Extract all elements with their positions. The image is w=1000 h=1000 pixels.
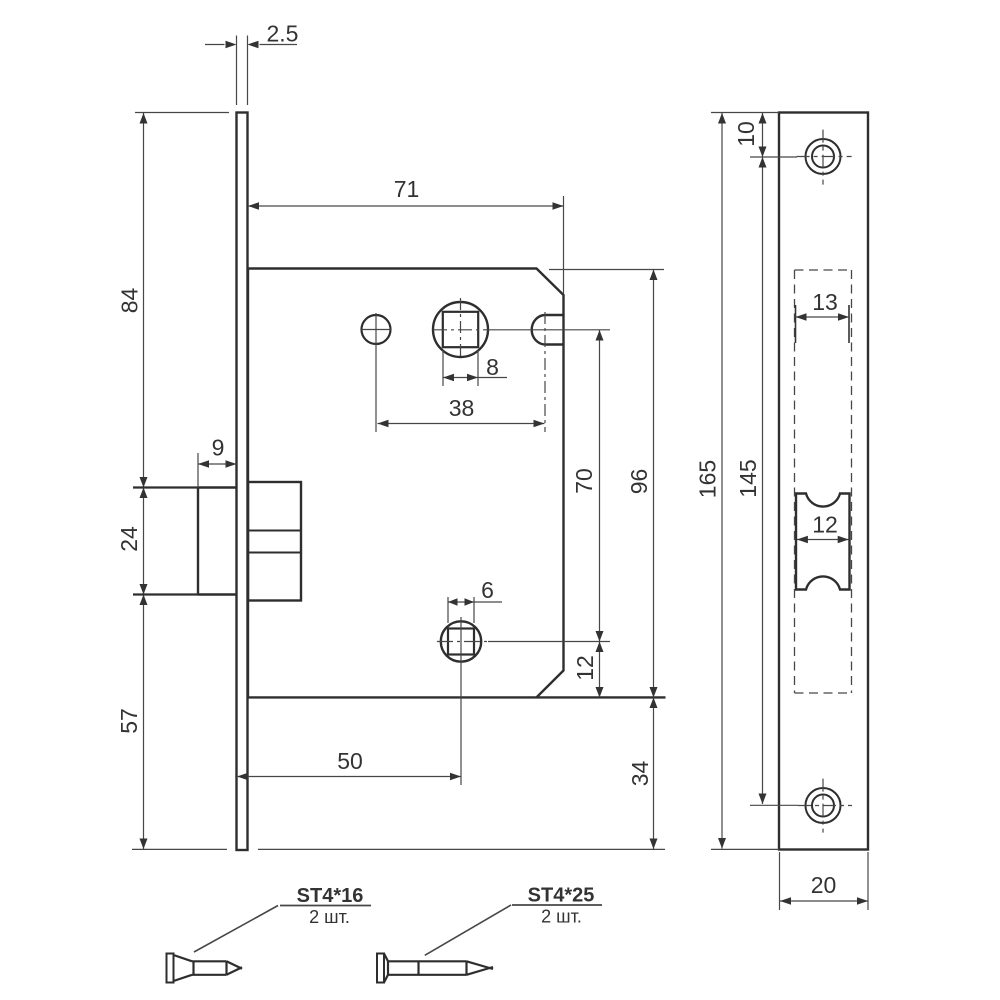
- svg-text:38: 38: [449, 395, 475, 421]
- svg-text:10: 10: [733, 121, 759, 147]
- svg-text:20: 20: [811, 872, 837, 898]
- svg-text:2 шт.: 2 шт.: [309, 907, 350, 927]
- svg-text:2 шт.: 2 шт.: [541, 907, 582, 927]
- svg-text:9: 9: [212, 435, 225, 461]
- svg-text:ST4*25: ST4*25: [528, 885, 595, 907]
- svg-text:13: 13: [812, 289, 838, 315]
- svg-text:24: 24: [116, 526, 142, 552]
- svg-text:2.5: 2.5: [267, 21, 299, 47]
- svg-text:165: 165: [695, 460, 721, 498]
- svg-text:70: 70: [571, 468, 597, 494]
- svg-text:34: 34: [627, 761, 653, 787]
- svg-text:8: 8: [486, 354, 499, 380]
- svg-text:145: 145: [735, 459, 761, 497]
- svg-text:12: 12: [572, 655, 598, 681]
- svg-text:12: 12: [812, 512, 838, 538]
- svg-text:6: 6: [481, 577, 494, 603]
- svg-text:84: 84: [117, 288, 143, 314]
- svg-text:71: 71: [394, 176, 420, 202]
- svg-text:ST4*16: ST4*16: [297, 885, 364, 907]
- svg-text:96: 96: [626, 469, 652, 495]
- svg-text:57: 57: [116, 708, 142, 734]
- svg-text:50: 50: [337, 748, 363, 774]
